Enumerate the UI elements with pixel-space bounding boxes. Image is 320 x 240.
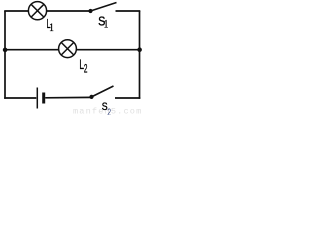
wire bottom-right fixed segment xyxy=(115,97,140,99)
battery long plate (+) xyxy=(36,88,38,109)
wire battery to switch xyxy=(45,96,91,98)
wire middle-left segment xyxy=(5,49,59,51)
switch S2 xyxy=(89,86,113,99)
wire top middle segment xyxy=(46,10,90,12)
wire top-left segment xyxy=(4,10,29,12)
wire middle-right segment xyxy=(77,49,140,51)
lamp L2 xyxy=(59,40,77,58)
switch S1 xyxy=(88,3,116,14)
battery short plate (-) xyxy=(42,93,45,104)
wire right vertical xyxy=(139,11,141,99)
wire left vertical xyxy=(4,11,6,99)
node junction right xyxy=(137,47,142,52)
wire top-right fixed segment xyxy=(116,10,141,12)
svg-text:2: 2 xyxy=(84,63,88,77)
svg-text:1: 1 xyxy=(49,22,53,34)
svg-text:1: 1 xyxy=(104,19,108,31)
node junction left xyxy=(3,48,8,53)
lamp L1 xyxy=(28,2,46,20)
svg-text:2: 2 xyxy=(107,106,111,115)
wire bottom-left segment xyxy=(4,97,36,99)
